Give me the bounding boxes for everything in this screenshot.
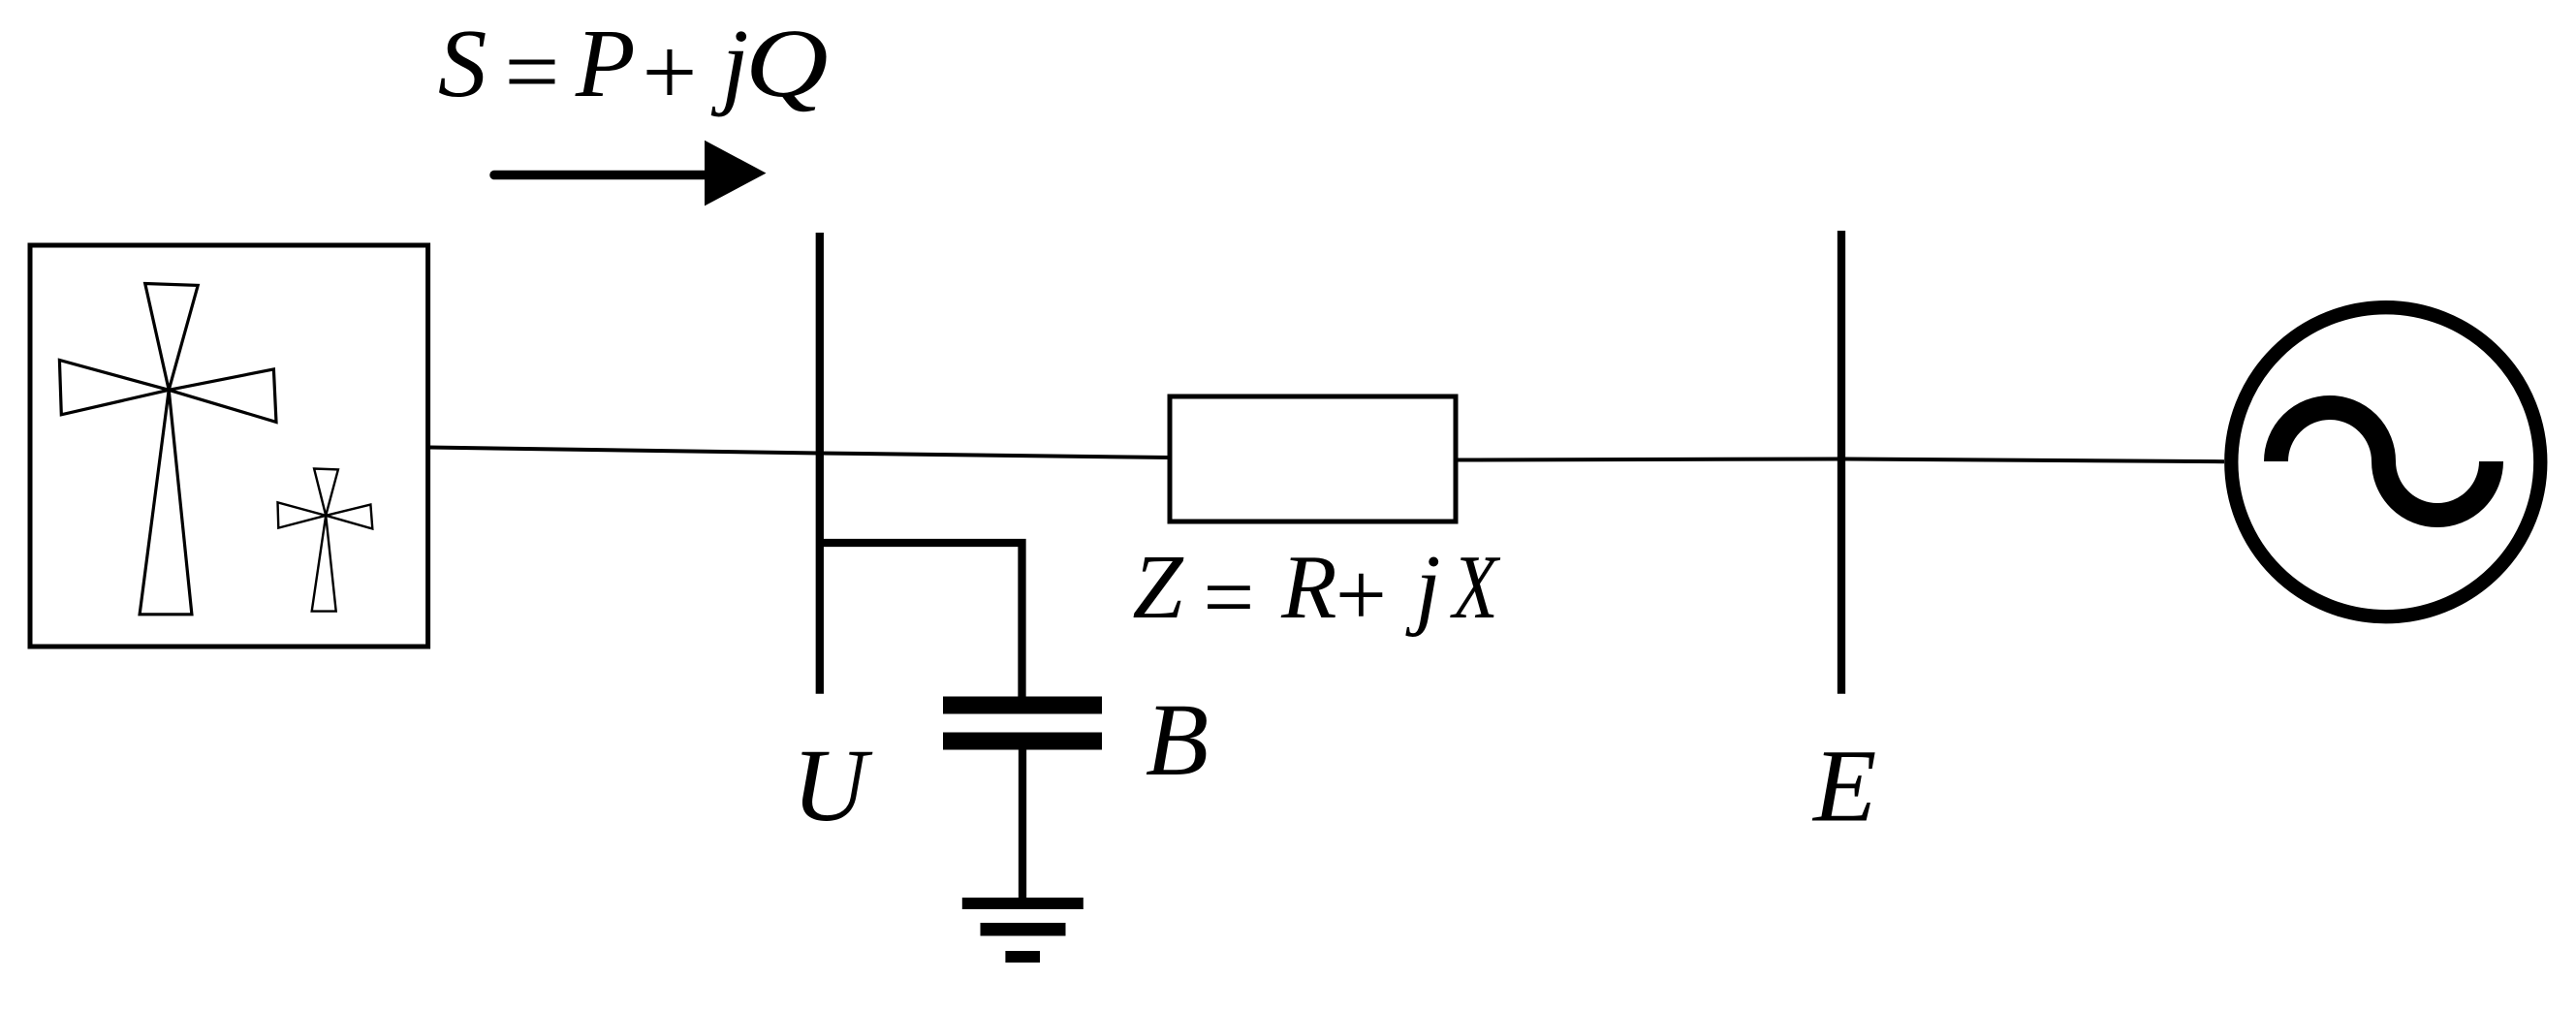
svg-text:Q: Q [745, 9, 829, 117]
svg-text:R: R [1280, 537, 1336, 638]
svg-text:=: = [1197, 547, 1258, 648]
svg-text:+: + [1330, 545, 1391, 646]
svg-text:X: X [1449, 537, 1500, 638]
svg-text:+: + [636, 17, 702, 126]
svg-text:P: P [575, 9, 636, 117]
svg-text:B: B [1146, 683, 1209, 798]
svg-text:Z: Z [1132, 537, 1184, 638]
svg-text:E: E [1811, 730, 1876, 844]
svg-text:U: U [792, 729, 873, 843]
svg-text:S: S [438, 9, 487, 117]
svg-text:=: = [498, 16, 564, 125]
